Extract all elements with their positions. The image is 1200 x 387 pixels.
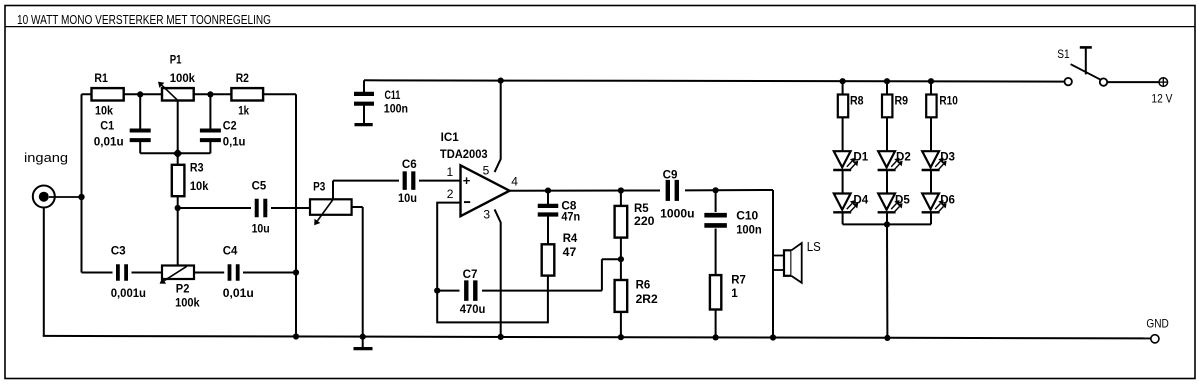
svg-text:1: 1	[731, 286, 738, 300]
svg-text:R6: R6	[636, 277, 651, 291]
svg-text:470u: 470u	[460, 302, 486, 316]
svg-text:ingang: ingang	[24, 150, 68, 165]
svg-text:R5: R5	[634, 201, 649, 215]
svg-text:C9: C9	[663, 168, 678, 182]
svg-text:10 WATT MONO VERSTERKER MET TO: 10 WATT MONO VERSTERKER MET TOONREGELING	[17, 12, 271, 27]
svg-text:4: 4	[511, 175, 518, 189]
svg-text:R10: R10	[939, 94, 958, 108]
svg-text:1000u: 1000u	[660, 207, 694, 221]
svg-text:100n: 100n	[384, 102, 408, 116]
svg-text:10u: 10u	[252, 221, 270, 235]
svg-text:C1: C1	[100, 119, 114, 133]
svg-text:C2: C2	[223, 119, 237, 133]
svg-text:D2: D2	[896, 150, 911, 164]
svg-text:5: 5	[483, 164, 490, 178]
svg-text:0,01u: 0,01u	[94, 135, 124, 149]
svg-text:47n: 47n	[561, 210, 580, 224]
svg-text:P2: P2	[176, 281, 190, 295]
svg-text:47: 47	[563, 245, 577, 259]
svg-text:R4: R4	[563, 231, 578, 245]
svg-text:S1: S1	[1057, 47, 1070, 61]
svg-text:0,001u: 0,001u	[111, 286, 146, 300]
svg-text:LS: LS	[807, 239, 821, 254]
svg-text:0,1u: 0,1u	[223, 135, 246, 149]
svg-text:R3: R3	[190, 160, 204, 174]
svg-text:C10: C10	[736, 209, 758, 223]
svg-text:P3: P3	[313, 180, 325, 194]
svg-text:100k: 100k	[170, 71, 196, 85]
svg-text:220: 220	[634, 214, 655, 228]
svg-text:+: +	[463, 173, 471, 188]
svg-text:10u: 10u	[398, 191, 417, 205]
svg-text:100n: 100n	[736, 222, 762, 236]
svg-text:R1: R1	[94, 71, 108, 85]
svg-text:100k: 100k	[175, 296, 200, 310]
svg-text:GND: GND	[1146, 317, 1169, 331]
svg-text:P1: P1	[170, 53, 182, 67]
svg-text:C11: C11	[385, 88, 401, 102]
svg-text:0,01u: 0,01u	[223, 286, 254, 300]
svg-text:3: 3	[483, 208, 490, 222]
svg-text:D4: D4	[853, 192, 868, 206]
svg-text:D1: D1	[853, 150, 868, 164]
svg-text:C5: C5	[252, 179, 267, 193]
svg-text:IC1: IC1	[441, 130, 459, 144]
svg-text:2R2: 2R2	[636, 292, 658, 306]
svg-text:D6: D6	[940, 192, 955, 206]
svg-text:D3: D3	[940, 150, 955, 164]
svg-text:C7: C7	[463, 267, 478, 281]
svg-text:10k: 10k	[95, 103, 113, 117]
svg-text:R2: R2	[236, 71, 249, 85]
svg-text:D5: D5	[895, 192, 910, 206]
svg-text:R8: R8	[850, 94, 864, 108]
svg-text:C3: C3	[111, 243, 126, 257]
svg-text:C6: C6	[402, 157, 417, 171]
svg-text:TDA2003: TDA2003	[440, 147, 488, 161]
svg-text:R7: R7	[731, 273, 746, 287]
svg-text:C4: C4	[223, 243, 238, 257]
svg-text:10k: 10k	[190, 179, 209, 193]
svg-text:1: 1	[447, 165, 454, 179]
svg-text:12 V: 12 V	[1151, 92, 1172, 106]
svg-text:R9: R9	[895, 94, 909, 108]
svg-text:2: 2	[447, 187, 454, 201]
svg-text:1k: 1k	[238, 103, 249, 117]
